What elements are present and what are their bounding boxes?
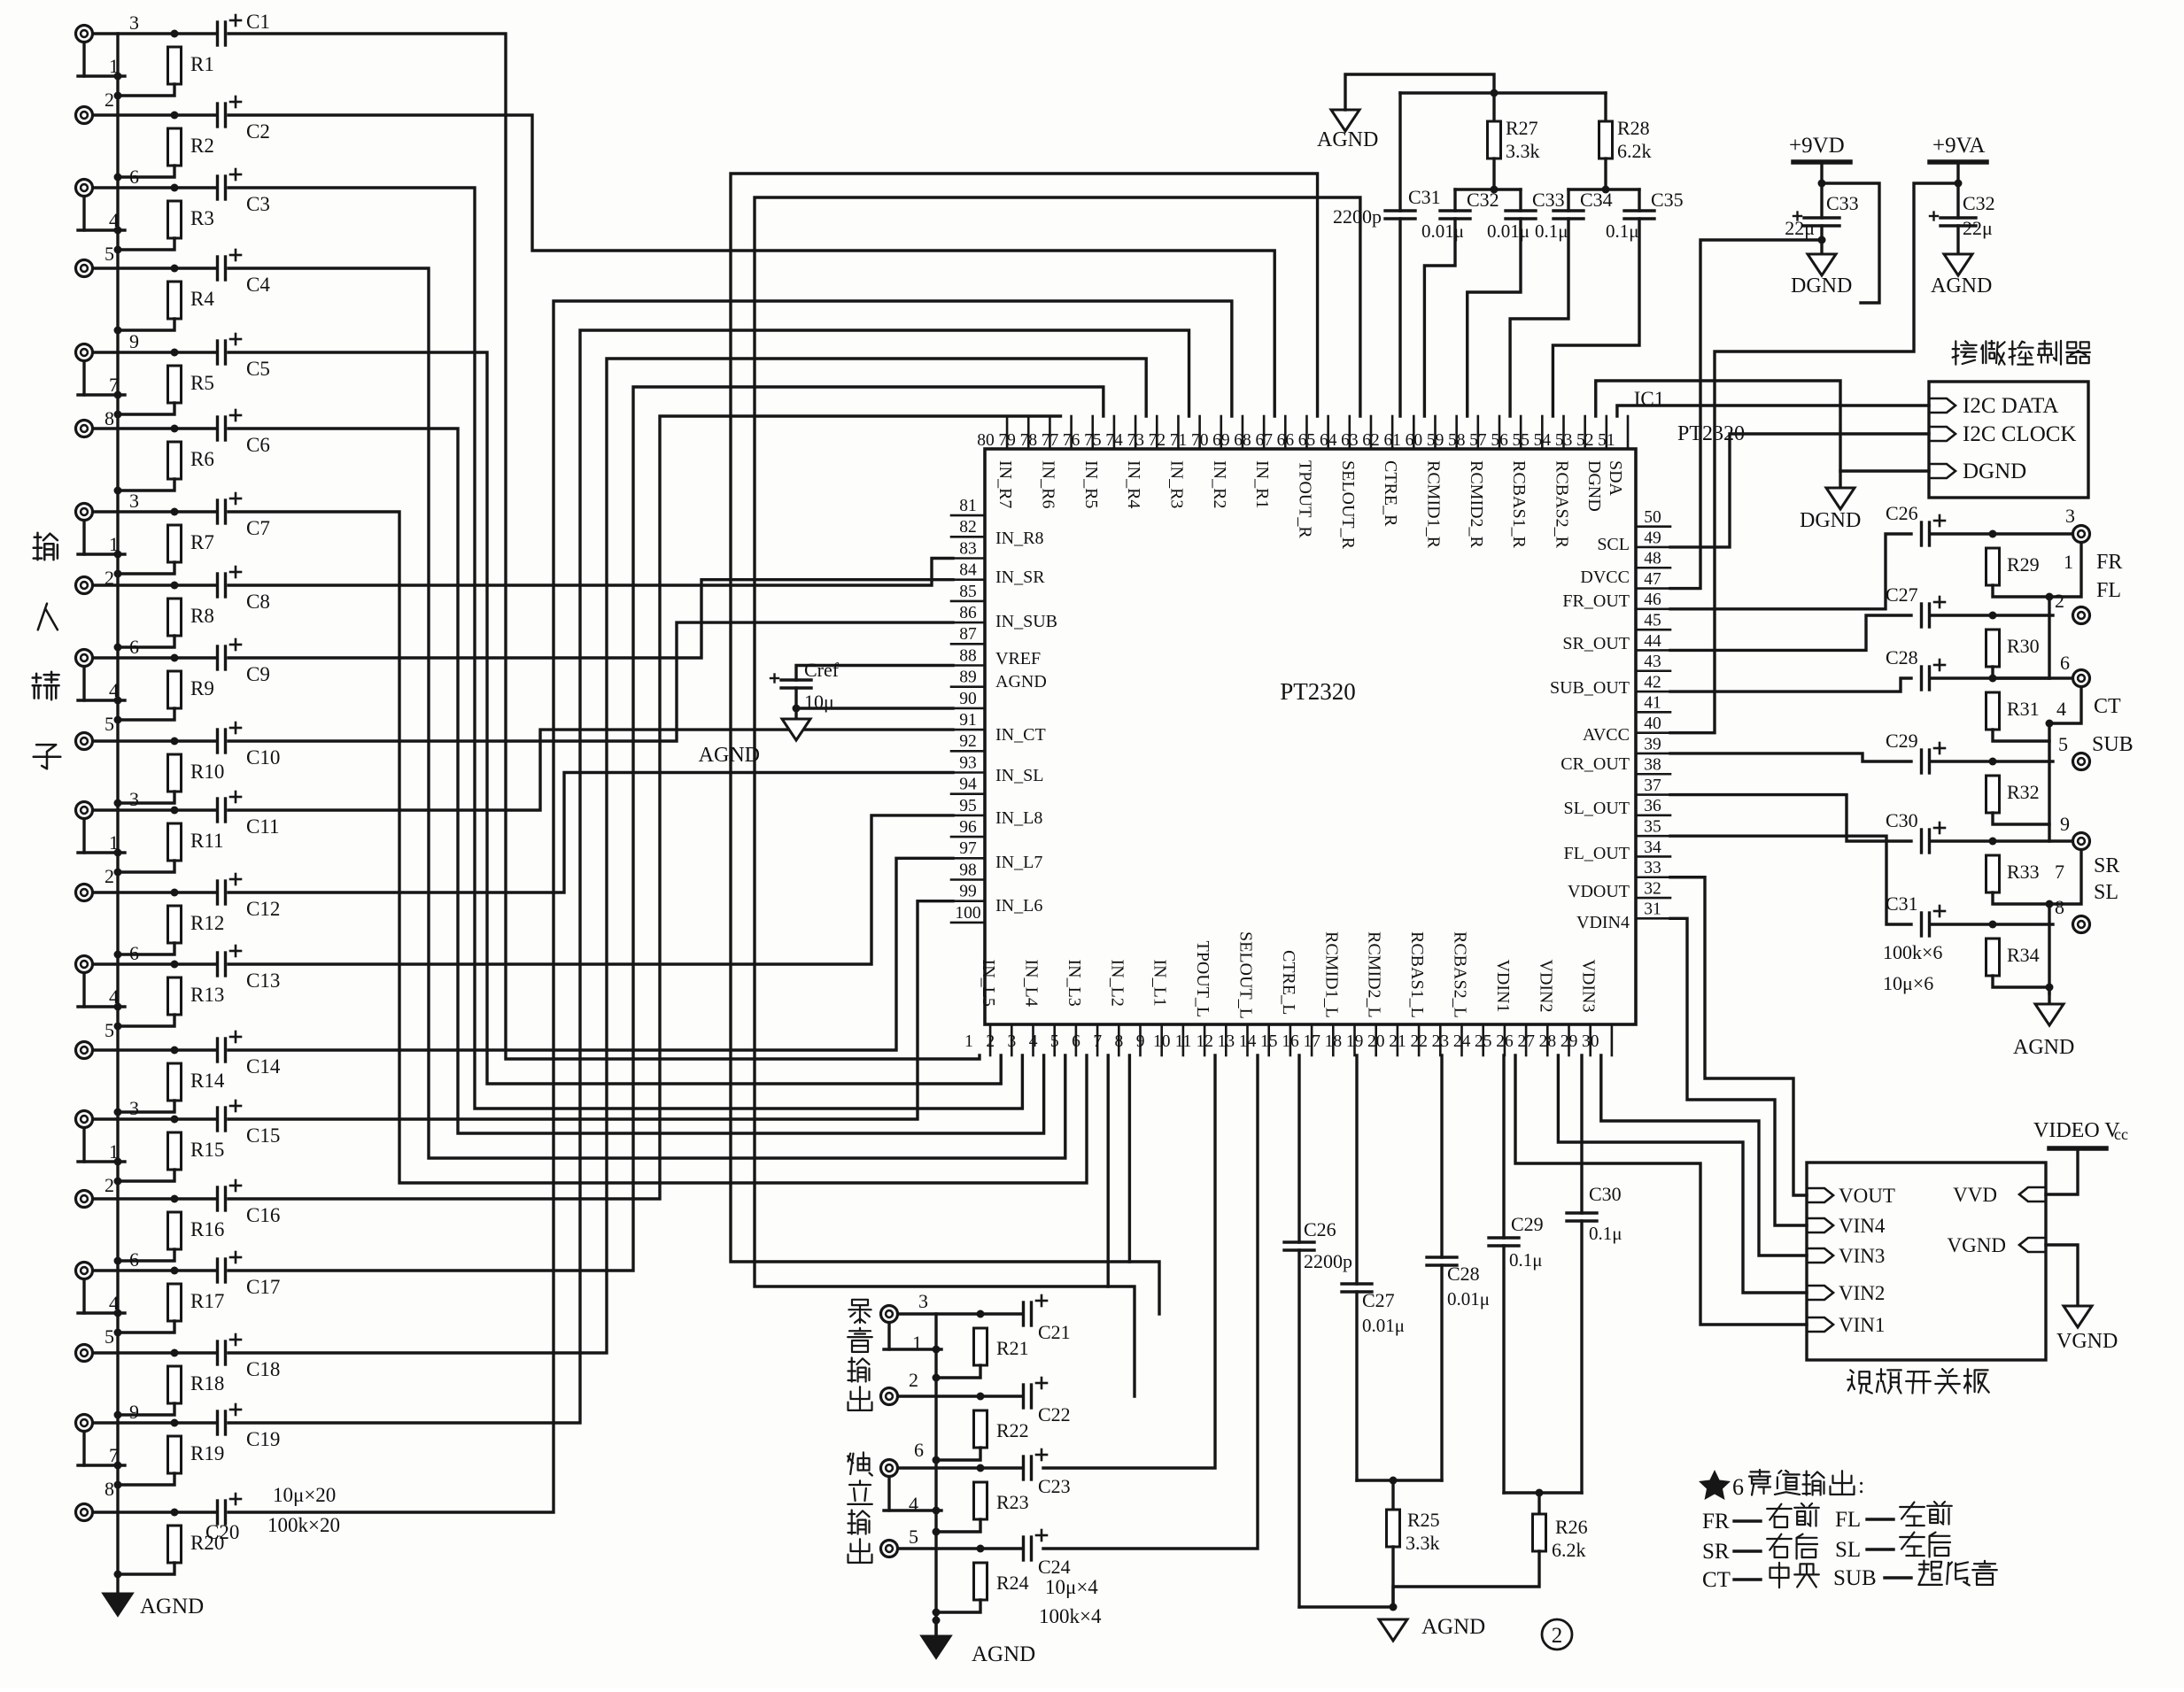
capacitor C7 — [216, 500, 219, 523]
input jack row 7 (pin 3) — [76, 504, 93, 521]
svg-text:VVD: VVD — [1953, 1184, 1997, 1206]
svg-text:2: 2 — [105, 89, 114, 111]
svg-text:63: 63 — [1341, 431, 1359, 450]
wire C26 to jack — [1931, 532, 2072, 535]
capacitor C26 output — [1920, 522, 1923, 545]
resistor R22 — [974, 1410, 987, 1448]
svg-text:2: 2 — [909, 1369, 918, 1391]
svg-text:72: 72 — [1149, 431, 1166, 450]
svg-text:32: 32 — [1644, 879, 1661, 898]
svg-text:6: 6 — [129, 636, 139, 658]
wire SCL pin 49 to I2C CLOCK — [1670, 434, 1929, 547]
svg-text:C27: C27 — [1886, 583, 1918, 606]
svg-text:36: 36 — [1644, 797, 1661, 815]
legend star 6-channel output (Chinese) — [1699, 1470, 1731, 1500]
svg-text:R1: R1 — [190, 53, 214, 75]
svg-text:VREF: VREF — [995, 649, 1041, 668]
svg-text:13: 13 — [1218, 1032, 1235, 1051]
capacitor C28 output — [1920, 667, 1923, 690]
svg-text:AGND: AGND — [972, 1642, 1035, 1666]
IC U1 PT2320 body — [985, 449, 1636, 1024]
svg-text:C29: C29 — [1511, 1213, 1544, 1235]
resistor R3 — [168, 201, 182, 238]
resistor R14 — [168, 1063, 182, 1101]
wire C19 to IC pin 71 — [228, 330, 1189, 1423]
svg-text:C8: C8 — [246, 591, 270, 613]
wire C23 to TPOUT_L pin 12 — [1043, 1055, 1215, 1468]
resistor R15 — [168, 1132, 182, 1170]
svg-text:3.3k: 3.3k — [1506, 140, 1540, 162]
svg-text:C5: C5 — [246, 358, 270, 380]
wire C14 to IC pin 97 — [228, 858, 953, 1050]
svg-text:8: 8 — [2055, 896, 2064, 918]
svg-text:38: 38 — [1644, 756, 1661, 775]
svg-text:R16: R16 — [190, 1218, 224, 1240]
svg-text:7: 7 — [2055, 861, 2064, 883]
svg-text:DGND: DGND — [1963, 460, 2026, 483]
svg-text:C4: C4 — [246, 274, 270, 296]
svg-text:1: 1 — [109, 533, 119, 555]
wire jack ladder — [82, 521, 85, 554]
svg-text:C12: C12 — [246, 898, 280, 920]
wire pin 46 to C26 — [1670, 534, 1911, 609]
resistor R34 — [1987, 939, 2000, 976]
svg-text:4: 4 — [1029, 1032, 1038, 1051]
capacitor C16 — [216, 1187, 219, 1210]
svg-text:R28: R28 — [1617, 117, 1650, 139]
svg-text:IN_R7: IN_R7 — [995, 460, 1015, 508]
svg-text:21: 21 — [1389, 1032, 1406, 1051]
svg-text:FL_OUT: FL_OUT — [1564, 844, 1630, 863]
svg-text:C6: C6 — [246, 434, 270, 456]
wire C2 to IC pin 67 — [228, 115, 1274, 416]
wire resistor to bus — [118, 943, 174, 954]
output jacks — [2073, 526, 2090, 543]
svg-text:5: 5 — [105, 713, 114, 735]
capacitor C10 — [216, 730, 219, 753]
svg-text:C26: C26 — [1304, 1218, 1336, 1240]
wire resistor to bus — [118, 1563, 174, 1574]
svg-text:59: 59 — [1427, 431, 1444, 450]
svg-text:C23: C23 — [1038, 1475, 1071, 1497]
wire C13 to IC pin 95 — [228, 815, 953, 964]
svg-text:SR_OUT: SR_OUT — [1562, 634, 1630, 653]
svg-text:FR_OUT: FR_OUT — [1562, 591, 1630, 611]
svg-text:83: 83 — [959, 539, 977, 558]
svg-text:FR: FR — [2096, 551, 2122, 574]
wire resistor to bus — [118, 1403, 174, 1415]
svg-text:C10: C10 — [246, 746, 280, 769]
wire C34 to pin 56 — [1510, 219, 1568, 416]
svg-text:51: 51 — [1598, 431, 1615, 450]
wire pin 35 to C31 — [1670, 836, 1911, 924]
svg-text:9: 9 — [1136, 1032, 1145, 1051]
resistor R31 — [1987, 692, 2000, 730]
ground VGND — [2064, 1306, 2092, 1327]
svg-text:94: 94 — [959, 776, 977, 794]
svg-text:39: 39 — [1644, 735, 1661, 753]
wire resistor to bus — [118, 84, 174, 96]
jack ladder stubs — [887, 1324, 890, 1349]
wire R23 to bus — [936, 1519, 980, 1532]
svg-text:C21: C21 — [1038, 1321, 1071, 1343]
svg-text:78: 78 — [1020, 431, 1038, 450]
svg-text:C29: C29 — [1886, 730, 1918, 752]
svg-text:54: 54 — [1534, 431, 1552, 450]
resistor R33 — [1987, 855, 2000, 892]
wire VDIN4 pin 31 to VIN4 — [1670, 918, 1807, 1225]
svg-text:SL: SL — [2094, 881, 2118, 904]
svg-text:IN_CT: IN_CT — [995, 725, 1046, 745]
svg-text:4: 4 — [2056, 698, 2066, 720]
wire C30 to jack — [1931, 839, 2072, 842]
svg-text:93: 93 — [959, 753, 977, 772]
svg-text:20: 20 — [1367, 1032, 1385, 1051]
svg-text:I2C CLOCK: I2C CLOCK — [1963, 422, 2076, 446]
ground AGND bottom mid — [1379, 1619, 1407, 1641]
svg-text:18: 18 — [1325, 1032, 1343, 1051]
svg-text:53: 53 — [1555, 431, 1573, 450]
wire R34 bottom — [1993, 976, 2049, 987]
svg-text:2: 2 — [1552, 1624, 1563, 1648]
resistor R27 3.3k — [1492, 93, 1495, 121]
svg-text:C11: C11 — [246, 815, 280, 838]
output jack C23 — [881, 1460, 898, 1477]
svg-text:IN_L6: IN_L6 — [995, 896, 1042, 916]
svg-text:1: 1 — [109, 831, 119, 854]
svg-text:9: 9 — [2060, 813, 2070, 835]
wire jack ladder — [82, 1279, 85, 1313]
svg-text:+9VA: +9VA — [1932, 134, 1986, 158]
svg-text:1: 1 — [109, 55, 119, 77]
wire C27 to jack — [1931, 614, 2053, 616]
svg-text:SR: SR — [1702, 1540, 1730, 1564]
ground AGND at Cref — [794, 708, 797, 719]
ground AGND below C32 — [1956, 226, 1959, 254]
svg-text:7: 7 — [109, 1444, 119, 1466]
svg-text:RCMID2_L: RCMID2_L — [1365, 931, 1384, 1018]
svg-text:23: 23 — [1432, 1032, 1450, 1051]
output jack C21 — [881, 1306, 898, 1323]
svg-text:2: 2 — [105, 865, 114, 887]
svg-text:62: 62 — [1362, 431, 1380, 450]
wire jack ladder — [82, 361, 85, 395]
svg-text:SELOUT_R: SELOUT_R — [1338, 460, 1358, 550]
wire R30 bottom — [1993, 667, 2049, 678]
svg-text:R9: R9 — [190, 677, 214, 699]
input jack row 9 (pin 6) — [76, 650, 93, 667]
svg-text:IN_R1: IN_R1 — [1252, 460, 1272, 508]
wire C15 to IC pin 99 — [228, 901, 953, 1119]
resistor R9 — [168, 671, 182, 708]
svg-text:66: 66 — [1277, 431, 1295, 450]
resistor R5 — [168, 366, 182, 403]
pin I2C CLOCK — [1929, 427, 1956, 441]
svg-text:IN_L1: IN_L1 — [1150, 960, 1170, 1007]
wire C33 to pin 58 — [1468, 219, 1521, 416]
svg-text:R25: R25 — [1407, 1509, 1440, 1531]
svg-text:IN_R8: IN_R8 — [995, 529, 1043, 548]
wire R32 bottom — [1993, 813, 2049, 824]
svg-text:5: 5 — [2058, 733, 2068, 755]
svg-text:C2: C2 — [246, 120, 270, 143]
svg-text:C17: C17 — [246, 1276, 280, 1298]
svg-text:48: 48 — [1644, 550, 1661, 568]
wire +9VA to AVCC — [1670, 183, 1958, 733]
wire C8 to IC pin 83 — [228, 559, 953, 586]
capacitor C17 — [216, 1259, 219, 1282]
svg-text:41: 41 — [1644, 694, 1661, 713]
svg-text:VGND: VGND — [1948, 1234, 2006, 1256]
wire C27 to R25 — [1357, 1479, 1393, 1481]
wire C3 to IC pin 3 — [228, 188, 1022, 1109]
wire DGND pin 52 to box — [1596, 381, 1929, 471]
svg-text:AGND: AGND — [995, 672, 1047, 691]
svg-text:4: 4 — [109, 679, 119, 701]
wire resistor to bus — [118, 861, 174, 872]
resistor R18 — [168, 1366, 182, 1403]
svg-text:3: 3 — [1008, 1032, 1017, 1051]
svg-text:C33: C33 — [1826, 192, 1859, 214]
wire pin 37 to C30 — [1670, 795, 1911, 841]
svg-text:C30: C30 — [1589, 1183, 1622, 1205]
svg-text:6: 6 — [1732, 1474, 1744, 1500]
wire C28 to R25 — [1393, 1479, 1442, 1481]
svg-text:30: 30 — [1582, 1032, 1599, 1051]
svg-text:6: 6 — [1072, 1032, 1080, 1051]
svg-text:C27: C27 — [1362, 1289, 1395, 1311]
svg-text:VIN2: VIN2 — [1839, 1282, 1885, 1304]
svg-text:R27: R27 — [1506, 117, 1538, 139]
svg-text:5: 5 — [1050, 1032, 1059, 1051]
input terminal ground bus — [116, 34, 119, 1594]
IC right pin band pins 50-31 — [1636, 525, 1670, 528]
wire VDOUT pin 33 to VOUT — [1670, 877, 1807, 1195]
svg-text:71: 71 — [1170, 431, 1188, 450]
wire C9 to IC pin 84 — [228, 580, 953, 658]
resistor R7 — [168, 525, 182, 562]
svg-text:R2: R2 — [190, 135, 214, 157]
svg-text:6: 6 — [2060, 652, 2070, 674]
svg-text:R11: R11 — [190, 830, 224, 852]
svg-text:CT: CT — [1702, 1568, 1731, 1592]
svg-text:42: 42 — [1644, 673, 1661, 691]
svg-text:FL: FL — [2096, 579, 2121, 602]
ground DGND below C33 — [1820, 240, 1823, 254]
wire SDA pin 51 to I2C DATA — [1617, 406, 1929, 416]
svg-text:C22: C22 — [1038, 1403, 1071, 1425]
svg-text:R20: R20 — [190, 1532, 224, 1554]
recording/independent bus — [934, 1314, 937, 1636]
svg-text:76: 76 — [1063, 431, 1080, 450]
input jack row 10 — [76, 733, 93, 750]
svg-text:IN_L5: IN_L5 — [979, 960, 998, 1007]
svg-text:R26: R26 — [1555, 1516, 1588, 1538]
svg-text:11: 11 — [1175, 1032, 1192, 1051]
svg-text:cc: cc — [2114, 1125, 2128, 1143]
svg-text:+9VD: +9VD — [1789, 134, 1845, 158]
svg-text:VIN4: VIN4 — [1839, 1215, 1886, 1237]
svg-text:RCMID1_R: RCMID1_R — [1423, 460, 1443, 549]
svg-text:R31: R31 — [2007, 698, 2040, 720]
capacitor C14 — [216, 1039, 219, 1062]
svg-text:C33: C33 — [1532, 189, 1565, 211]
svg-text:35: 35 — [1644, 818, 1661, 837]
capacitor C21 — [1022, 1302, 1025, 1325]
capacitor C12 — [216, 881, 219, 904]
wire C20 to IC pin 69 — [228, 301, 1232, 1512]
svg-text:4: 4 — [109, 985, 119, 1008]
svg-text:CT: CT — [2094, 695, 2121, 718]
svg-text:RCMID2_R: RCMID2_R — [1467, 460, 1486, 549]
svg-text:44: 44 — [1644, 632, 1661, 651]
svg-text:R21: R21 — [996, 1337, 1029, 1359]
svg-text:0.1μ: 0.1μ — [1589, 1223, 1623, 1244]
IC bottom pin band pins 1-30 — [989, 1024, 992, 1055]
svg-text:2: 2 — [986, 1032, 995, 1051]
svg-text:0.1μ: 0.1μ — [1509, 1249, 1543, 1271]
svg-text:5: 5 — [105, 243, 114, 265]
resistor R25 3.3k — [1391, 1480, 1394, 1510]
input jack row 15 (pin 3) — [76, 1111, 93, 1128]
wire to AGND output — [2046, 984, 2054, 992]
capacitor C6 — [216, 417, 219, 440]
svg-text:3: 3 — [129, 1097, 139, 1119]
wire C12 to IC pin 93 — [228, 773, 953, 893]
svg-text:47: 47 — [1644, 570, 1661, 589]
wire jack ladder — [82, 1128, 85, 1162]
wire resistor to bus — [118, 636, 174, 647]
svg-text:43: 43 — [1644, 653, 1661, 671]
svg-text:VDIN1: VDIN1 — [1493, 960, 1513, 1013]
wire C24 to SELOUT_L pin 14 — [1043, 1055, 1258, 1549]
svg-text:10μ×4: 10μ×4 — [1045, 1576, 1098, 1598]
svg-text:49: 49 — [1644, 529, 1661, 547]
svg-text:5: 5 — [909, 1526, 918, 1548]
capacitor C4 — [216, 257, 219, 280]
svg-text:SUB: SUB — [1833, 1566, 1877, 1590]
svg-text:55: 55 — [1513, 431, 1530, 450]
svg-text:77: 77 — [1042, 431, 1059, 450]
svg-text:65: 65 — [1298, 431, 1316, 450]
capacitor C30 output — [1920, 830, 1923, 853]
svg-text:IN_SR: IN_SR — [995, 568, 1045, 587]
svg-text:DVCC: DVCC — [1580, 568, 1630, 587]
svg-text:R17: R17 — [190, 1290, 224, 1312]
input jack row 18 — [76, 1345, 93, 1362]
svg-text:R8: R8 — [190, 605, 214, 627]
svg-text:17: 17 — [1303, 1032, 1320, 1051]
svg-text:2: 2 — [105, 1174, 114, 1196]
input jack row 1 (pin 3) — [76, 26, 93, 42]
pin VVD — [2019, 1187, 2046, 1201]
resistor R6 — [168, 442, 182, 479]
capacitor C23 — [1022, 1456, 1025, 1480]
wire C7 to IC pin 6 — [228, 512, 1087, 1183]
svg-text:24: 24 — [1453, 1032, 1471, 1051]
capacitor C9 — [216, 646, 219, 669]
wire R33 bottom — [1993, 892, 2049, 904]
capacitor C33 22u digital — [1804, 216, 1839, 219]
capacitor C27 output — [1920, 604, 1923, 627]
resistor R30 — [1987, 630, 2000, 667]
svg-text:R23: R23 — [996, 1491, 1029, 1513]
svg-text:C9: C9 — [246, 663, 270, 685]
wire resistor to bus — [118, 708, 174, 720]
resistor R13 — [168, 977, 182, 1015]
svg-text:33: 33 — [1644, 859, 1661, 877]
svg-text:C16: C16 — [246, 1204, 280, 1226]
capacitor C29 0.1u bottom — [1502, 1055, 1505, 1238]
svg-text:8: 8 — [105, 1478, 114, 1500]
svg-text:84: 84 — [959, 561, 977, 580]
wire C1 to IC pin 1 — [228, 34, 980, 1059]
wire R28 to C34 C35 — [1568, 188, 1639, 190]
svg-text:FL: FL — [1835, 1508, 1861, 1532]
svg-text:29: 29 — [1561, 1032, 1578, 1051]
capacitor C31 output — [1920, 913, 1923, 936]
svg-text:R3: R3 — [190, 207, 214, 229]
svg-text:45: 45 — [1644, 612, 1661, 630]
svg-text:46: 46 — [1644, 591, 1661, 609]
svg-text:C28: C28 — [1447, 1263, 1480, 1285]
resistor R1 — [168, 47, 182, 84]
wire R31 bottom — [1993, 730, 2049, 741]
svg-text:SR: SR — [2094, 854, 2119, 877]
wire TPOUT_R to recording out C21 — [731, 174, 1318, 1314]
resistor R26 6.2k — [1537, 1493, 1540, 1514]
capacitor C33 0.01&#956; — [1519, 189, 1522, 211]
capacitor C24 — [1022, 1537, 1025, 1560]
wire C31 to jack — [1931, 923, 2053, 925]
svg-text:VIN1: VIN1 — [1839, 1314, 1885, 1336]
pin VIN3 — [1807, 1248, 1833, 1263]
input jack row 14 — [76, 1042, 93, 1059]
svg-text:75: 75 — [1084, 431, 1102, 450]
svg-text:40: 40 — [1644, 715, 1661, 733]
text video switch board (Chinese) — [1847, 1370, 1872, 1393]
svg-text:1: 1 — [109, 1140, 119, 1163]
wire resistor to bus — [118, 319, 174, 330]
capacitor C8 — [216, 574, 219, 597]
resistor R8 — [168, 599, 182, 636]
svg-text:IN_SL: IN_SL — [995, 766, 1043, 785]
svg-text:R29: R29 — [2007, 553, 2040, 576]
svg-text:16: 16 — [1282, 1032, 1299, 1051]
IC left pin band pins 81-100 — [951, 514, 985, 517]
wire C35 to pin 54 — [1553, 219, 1639, 416]
capacitor C30 0.1u bottom — [1580, 1055, 1583, 1213]
svg-text:CR_OUT: CR_OUT — [1561, 754, 1630, 774]
svg-text:R6: R6 — [190, 448, 214, 470]
pin VIN1 — [1807, 1317, 1833, 1332]
svg-text:98: 98 — [959, 861, 977, 879]
svg-text:SL_OUT: SL_OUT — [1564, 799, 1630, 818]
wire VDIN3 pin 30 to VIN3 — [1601, 1055, 1807, 1255]
svg-text:2200p: 2200p — [1333, 205, 1382, 228]
output jack C22 — [881, 1388, 898, 1405]
wire C31 to pin 61 CTRE_R — [1398, 219, 1401, 416]
wire AGND pin 90 — [794, 688, 797, 708]
wire C10 to IC pin 86 — [228, 622, 953, 741]
svg-text:7: 7 — [1093, 1032, 1102, 1051]
svg-text:9: 9 — [129, 330, 139, 352]
text connect-to-microcontroller (Chinese) — [1953, 341, 1977, 364]
svg-text:C7: C7 — [246, 517, 270, 539]
wire C11 to IC pin 91 — [228, 730, 953, 810]
pin I2C DATA — [1929, 398, 1956, 413]
svg-text:34: 34 — [1644, 838, 1661, 857]
